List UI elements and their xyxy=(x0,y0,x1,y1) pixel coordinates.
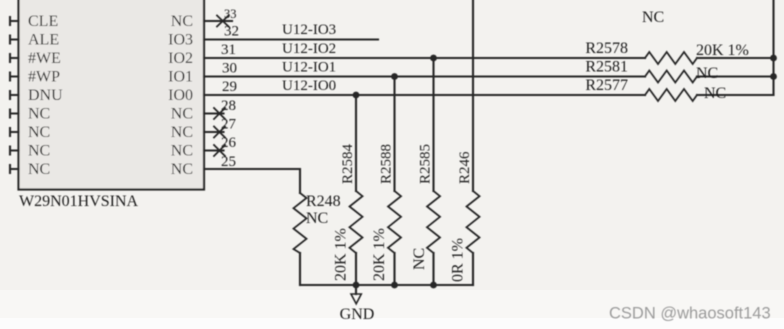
svg-text:29: 29 xyxy=(222,79,237,95)
svg-text:U12-IO2: U12-IO2 xyxy=(282,41,336,57)
svg-text:CLE: CLE xyxy=(28,13,58,30)
wire pin 31 net U12-IO2 (left of R2578) xyxy=(204,57,645,59)
wire top net (NC) down to R246 xyxy=(472,0,474,191)
pin 33 stub (NC) xyxy=(204,20,232,22)
no-connect X on pin 28 xyxy=(214,108,225,119)
wire U12-IO0 junction drop to R2584 xyxy=(355,95,357,191)
bottom ground rail wire xyxy=(300,284,473,286)
GND symbol xyxy=(351,285,361,304)
junction on U12-IO1 at R2588 xyxy=(391,73,398,80)
svg-text:NC: NC xyxy=(171,161,193,178)
svg-text:U12-IO3: U12-IO3 xyxy=(282,22,336,38)
pin stub #WP (left row 4) xyxy=(10,73,19,81)
pin stub DNU (left row 5) xyxy=(10,91,19,99)
svg-text:NC: NC xyxy=(28,106,50,123)
svg-text:DNU: DNU xyxy=(28,87,63,104)
svg-text:#WP: #WP xyxy=(28,69,60,86)
svg-text:U12-IO1: U12-IO1 xyxy=(282,60,336,76)
svg-text:NC: NC xyxy=(306,210,328,227)
svg-text:IO1: IO1 xyxy=(168,69,193,86)
svg-text:20K 1%: 20K 1% xyxy=(696,42,749,59)
wire R246 to bottom rail xyxy=(472,253,474,285)
svg-text:0R 1%: 0R 1% xyxy=(450,238,467,282)
no-connect X on pin 27 xyxy=(214,127,225,138)
svg-text:32: 32 xyxy=(224,24,239,40)
resistor R2588 (vertical zigzag) xyxy=(388,191,401,253)
pin stub NC (left row 7) xyxy=(10,128,19,136)
junction on U12-IO0 at R2584 xyxy=(353,92,360,99)
junction bottom rail at R2585 xyxy=(430,282,437,289)
wire R2588 to bottom rail xyxy=(393,253,395,285)
svg-text:R2585: R2585 xyxy=(418,144,434,184)
svg-text:R2588: R2588 xyxy=(379,144,395,184)
no-connect X on pin 33 xyxy=(217,16,229,27)
svg-text:NC: NC xyxy=(171,143,193,160)
svg-text:R246: R246 xyxy=(457,151,473,184)
svg-text:IO3: IO3 xyxy=(168,32,193,49)
wire R2585 to bottom rail xyxy=(432,253,434,285)
svg-text:20K 1%: 20K 1% xyxy=(371,228,388,281)
wire U12-IO2 junction drop to R2585 xyxy=(432,58,434,191)
wire net U12-IO1 (right of R2581) xyxy=(697,75,774,77)
wire net U12-IO2 (right of R2578) xyxy=(697,57,774,59)
svg-text:31: 31 xyxy=(221,42,236,58)
wire R2584 to bottom rail xyxy=(355,253,357,285)
svg-text:IO0: IO0 xyxy=(168,87,193,104)
svg-text:26: 26 xyxy=(221,135,237,151)
svg-text:NC: NC xyxy=(704,85,726,102)
pin stub NC (left row 6) xyxy=(10,110,19,118)
resistor R248 (vertical zigzag) xyxy=(294,193,307,253)
svg-text:NC: NC xyxy=(28,124,50,141)
wire right-edge vertical bus xyxy=(772,0,774,95)
junction bottom rail at R2584/GND xyxy=(353,282,360,289)
resistor R2577 (horizontal zigzag) xyxy=(645,89,697,101)
svg-text:IO2: IO2 xyxy=(168,50,193,67)
svg-text:R2578: R2578 xyxy=(585,40,628,57)
svg-text:U12-IO0: U12-IO0 xyxy=(282,78,336,94)
resistor R2584 (vertical zigzag) xyxy=(350,191,363,253)
svg-text:R2577: R2577 xyxy=(585,77,628,94)
svg-text:GND: GND xyxy=(340,306,375,323)
svg-text:28: 28 xyxy=(221,98,236,114)
svg-text:NC: NC xyxy=(411,248,428,270)
svg-text:25: 25 xyxy=(221,154,236,170)
svg-text:NC: NC xyxy=(171,13,193,30)
IC U12 body (W29N01HVSINA) xyxy=(19,0,205,190)
svg-text:#WE: #WE xyxy=(28,50,61,67)
pin stub #WE (left row 3) xyxy=(10,54,19,62)
pin stub NC (left row 8) xyxy=(10,147,19,155)
wire U12-IO1 junction drop to R2588 xyxy=(393,77,395,192)
no-connect X on pin 26 xyxy=(214,145,225,156)
svg-text:NC: NC xyxy=(28,143,50,160)
svg-text:R2581: R2581 xyxy=(585,59,628,76)
svg-text:R248: R248 xyxy=(306,193,341,210)
resistor R2578 (horizontal zigzag) xyxy=(645,52,697,64)
svg-text:27: 27 xyxy=(221,117,237,133)
pin stub CLE (left row 1) xyxy=(10,17,19,25)
svg-text:W29N01HVSINA: W29N01HVSINA xyxy=(19,193,139,210)
wire net U12-IO0 (right of R2577) xyxy=(697,94,774,96)
svg-text:NC: NC xyxy=(696,65,718,82)
svg-text:NC: NC xyxy=(171,124,193,141)
resistor R2585 (vertical zigzag) xyxy=(427,191,440,253)
wire pin 25 to R248 xyxy=(204,169,300,193)
wire pin 30 net U12-IO1 (left of R2581) xyxy=(204,75,645,77)
svg-text:CSDN @whaosoft143: CSDN @whaosoft143 xyxy=(609,305,771,323)
junction right bus at U12-IO1 xyxy=(770,73,777,80)
wire pin 32 net U12-IO3 xyxy=(204,38,378,40)
svg-text:20K 1%: 20K 1% xyxy=(333,228,350,281)
svg-text:33: 33 xyxy=(224,7,237,21)
svg-text:ALE: ALE xyxy=(28,32,59,49)
pin 27 stub (NC) xyxy=(204,131,224,133)
pin 26 stub (NC) xyxy=(204,149,224,151)
svg-text:30: 30 xyxy=(222,61,237,77)
resistor R2581 (horizontal zigzag) xyxy=(645,71,697,83)
resistor R246 (vertical zigzag) xyxy=(467,191,480,253)
svg-text:NC: NC xyxy=(28,161,50,178)
junction on U12-IO2 at R2585 xyxy=(430,55,437,62)
pin 28 stub (NC) xyxy=(204,112,224,114)
svg-text:R2584: R2584 xyxy=(340,143,356,184)
svg-text:NC: NC xyxy=(171,106,193,123)
wire pin 29 net U12-IO0 (left of R2577) xyxy=(204,94,645,96)
junction bottom rail at R2588 xyxy=(391,282,398,289)
pin stub ALE (left row 2) xyxy=(10,36,19,44)
junction right bus at U12-IO2 xyxy=(770,55,777,62)
pin stub NC (left row 9) xyxy=(10,165,19,173)
wire R248 to bottom rail xyxy=(299,253,301,285)
svg-text:NC: NC xyxy=(642,9,664,26)
